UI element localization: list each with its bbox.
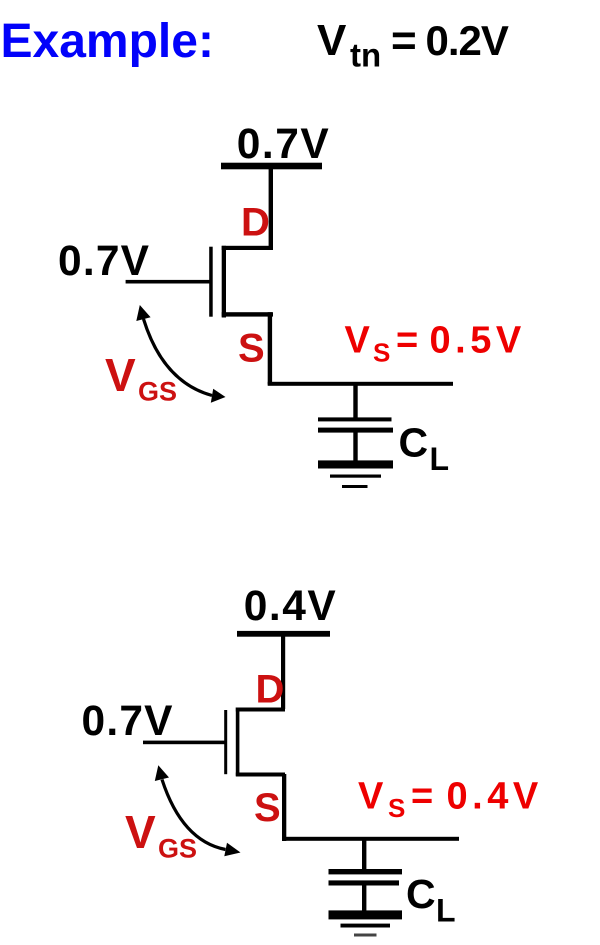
transistor M1 drain lead <box>222 246 273 250</box>
ground (lower) <box>329 910 403 936</box>
svg-text:V: V <box>345 320 371 362</box>
svg-text:S: S <box>238 327 265 371</box>
svg-text:0.4V: 0.4V <box>244 583 337 630</box>
svg-text:C: C <box>399 420 429 466</box>
transistor M2 gate bar <box>224 710 227 774</box>
label VS = 0.5V (upper) <box>345 320 526 368</box>
transistor M2 channel bar <box>236 708 240 776</box>
wire drain vertical (lower) <box>281 634 285 709</box>
svg-text:GS: GS <box>158 834 197 864</box>
svg-text:=: = <box>391 16 417 65</box>
svg-text:=: = <box>396 320 418 362</box>
transistor M1 source lead <box>222 312 273 316</box>
capacitor C2 bottom plate <box>329 880 400 885</box>
svg-text:V: V <box>317 16 347 65</box>
svg-text:0.4V: 0.4V <box>447 775 543 817</box>
svg-text:V: V <box>125 806 156 858</box>
wire source vertical (upper) <box>268 312 272 384</box>
wire output horizontal (lower) <box>282 837 459 841</box>
svg-text:0.7V: 0.7V <box>58 238 150 285</box>
svg-text:=: = <box>411 775 433 817</box>
arrow VGS (upper) <box>144 319 213 396</box>
wire source vertical (lower) <box>282 774 286 841</box>
svg-text:S: S <box>388 793 405 823</box>
svg-text:GS: GS <box>138 376 177 406</box>
capacitor C2 bottom stem <box>362 885 366 911</box>
label VS = 0.4V (lower) <box>358 775 543 823</box>
wire drain vertical (upper) <box>269 166 273 248</box>
capacitor C1 bottom plate <box>318 428 393 433</box>
arrow VGS (lower) <box>162 780 226 850</box>
svg-text:0.7V: 0.7V <box>237 121 330 168</box>
label CL (lower) <box>406 871 456 929</box>
capacitor C1 top stem <box>353 384 357 419</box>
transistor M2 source lead <box>236 773 285 777</box>
svg-text:L: L <box>430 441 450 477</box>
svg-text:tn: tn <box>350 37 381 74</box>
svg-text:0.7V: 0.7V <box>82 698 174 745</box>
svg-text:V: V <box>358 775 384 817</box>
label VGS (lower) <box>125 806 197 864</box>
capacitor C1 bottom stem <box>353 432 357 461</box>
transistor M1 channel bar <box>222 246 226 318</box>
svg-text:Example:: Example: <box>1 15 214 68</box>
capacitor C1 top plate <box>318 417 392 421</box>
wire output horizontal (upper) <box>268 382 453 386</box>
supply rail 0.7V (upper) <box>221 163 322 170</box>
capacitor C2 top stem <box>362 840 366 871</box>
transistor M1 gate lead <box>126 280 210 284</box>
svg-text:S: S <box>373 337 390 367</box>
label Vtn = 0.2V <box>317 16 509 73</box>
svg-text:L: L <box>436 893 456 929</box>
svg-text:C: C <box>406 871 436 917</box>
svg-text:V: V <box>105 349 136 401</box>
label CL (upper) <box>399 420 450 478</box>
transistor M1 gate bar <box>209 247 213 317</box>
svg-text:0.2V: 0.2V <box>426 17 509 64</box>
ground (upper) <box>318 460 393 488</box>
svg-text:S: S <box>254 786 281 830</box>
label VGS (upper) <box>105 349 177 407</box>
supply rail 0.4V (lower) <box>237 631 330 637</box>
transistor M2 gate lead <box>143 741 225 745</box>
capacitor C2 top plate <box>329 869 403 874</box>
svg-text:0.5V: 0.5V <box>430 320 526 362</box>
transistor M2 drain lead <box>236 708 285 712</box>
svg-text:D: D <box>241 200 270 244</box>
svg-text:D: D <box>256 667 285 711</box>
